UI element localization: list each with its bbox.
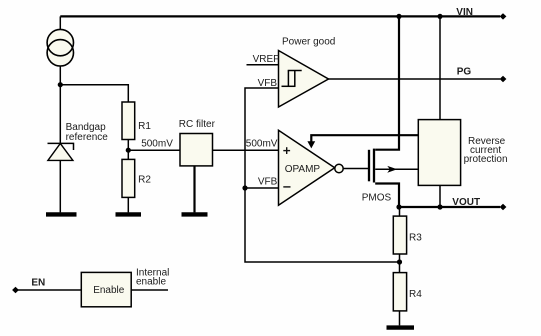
svg-text:RC filter: RC filter bbox=[179, 119, 216, 130]
svg-text:reference: reference bbox=[66, 132, 109, 143]
svg-text:enable: enable bbox=[136, 277, 166, 288]
svg-text:VFB: VFB bbox=[258, 78, 278, 89]
svg-text:500mV: 500mV bbox=[246, 139, 278, 150]
svg-text:protection: protection bbox=[464, 154, 508, 165]
svg-text:VREF: VREF bbox=[253, 54, 280, 65]
svg-text:R2: R2 bbox=[138, 174, 151, 185]
svg-text:R3: R3 bbox=[409, 232, 422, 243]
svg-text:EN: EN bbox=[31, 277, 45, 288]
svg-text:R4: R4 bbox=[409, 289, 422, 300]
svg-text:VFB: VFB bbox=[258, 177, 278, 188]
svg-text:PMOS: PMOS bbox=[362, 193, 392, 204]
svg-text:PG: PG bbox=[457, 67, 472, 78]
svg-text:Power good: Power good bbox=[282, 37, 335, 48]
svg-text:OPAMP: OPAMP bbox=[285, 164, 321, 175]
svg-text:500mV: 500mV bbox=[141, 139, 173, 150]
svg-text:VIN: VIN bbox=[456, 7, 473, 18]
svg-text:Enable: Enable bbox=[93, 285, 125, 296]
svg-text:VOUT: VOUT bbox=[452, 197, 480, 208]
svg-text:R1: R1 bbox=[138, 121, 151, 132]
